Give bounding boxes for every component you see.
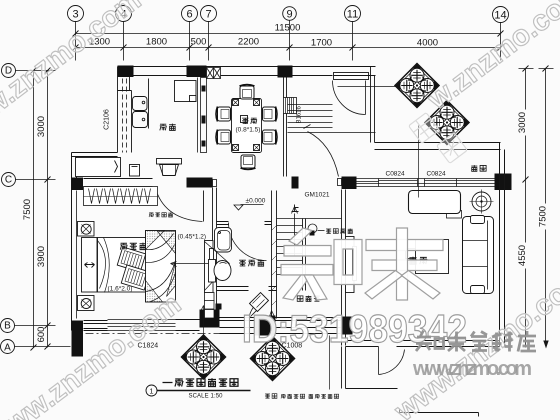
svg-text:±0.000: ±0.000: [246, 198, 266, 205]
svg-text:1800: 1800: [146, 37, 167, 48]
right dim lines: [519, 66, 554, 349]
diagonal band mid-right faint glyph boxes: [409, 113, 468, 164]
mo: left leg: [365, 271, 403, 300]
dining table: [232, 99, 262, 153]
wardrobe strip with hangers: [84, 187, 158, 206]
diag bench: [250, 293, 269, 312]
title: [146, 378, 251, 399]
hall stove: [157, 159, 182, 176]
bottom-right wall: [346, 341, 500, 347]
entry shoe cabinet: [334, 73, 369, 80]
door stopper fixture: [308, 224, 325, 236]
mo: bar1: [366, 240, 443, 251]
storage east wall: [342, 190, 346, 346]
svg-text:www.znzmo.com: www.znzmo.com: [412, 358, 532, 380]
big zhi-mo watermark drawn: [281, 228, 443, 300]
window labels bottom: [138, 343, 303, 350]
dining-entry divider wall: [284, 78, 287, 177]
svg-text:C2106: C2106: [104, 109, 111, 130]
dining chairs: [240, 85, 255, 100]
bath east wall: [272, 191, 277, 319]
kitchen west window C2106: [118, 67, 130, 153]
laundry door: [250, 300, 267, 317]
outdoor steps: [400, 409, 479, 417]
bed headboard: [82, 238, 98, 293]
flower bed north wall: [375, 143, 501, 150]
bedroom labels: [120, 243, 146, 250]
east exterior wall: [500, 143, 505, 346]
svg-text:C0824: C0824: [427, 171, 447, 178]
entry door: [333, 81, 366, 115]
column G9: [278, 66, 293, 78]
column G6-7: [187, 66, 207, 78]
svg-text:600: 600: [36, 327, 47, 343]
svg-text:4000: 4000: [417, 38, 438, 49]
bedroom north wall: [84, 179, 153, 187]
window wall C0824: [357, 179, 495, 187]
toilet: [209, 260, 232, 283]
kitchen label: [160, 124, 176, 131]
storage label: [297, 296, 320, 302]
eave dash line: [86, 333, 251, 335]
column flower bed east: [495, 174, 512, 191]
mo: vertical: [397, 228, 408, 300]
column C-line west: [72, 178, 84, 191]
mo: [447, 332, 466, 352]
leader lines bottom: [201, 306, 330, 390]
svg-text:3: 3: [72, 9, 78, 21]
svg-text:7: 7: [205, 9, 211, 21]
entry east wall: [371, 67, 375, 143]
bath north wall + door: [217, 222, 272, 225]
medallion 4: [251, 337, 295, 381]
side table: [447, 211, 462, 219]
columns bottom: [72, 321, 84, 357]
rear door: [379, 347, 405, 375]
svg-text:14: 14: [494, 10, 506, 22]
bedroom door: [153, 191, 204, 222]
porch walls: [342, 347, 398, 389]
west exterior wall: [72, 153, 77, 331]
hall cabinet: [76, 158, 121, 177]
bottom tiny label: [265, 394, 339, 399]
svg-text:B1616: B1616: [297, 105, 303, 123]
top exterior wall: [118, 67, 376, 76]
svg-text:11500: 11500: [275, 23, 301, 34]
zhi: [416, 331, 444, 352]
svg-text:(0.45*1.2): (0.45*1.2): [178, 234, 207, 241]
stair up arrow: [292, 207, 298, 256]
tv label + arrow: [171, 242, 230, 291]
living label: [409, 257, 427, 264]
medallion 3: [182, 335, 226, 379]
svg-text:A: A: [4, 343, 11, 354]
storage north line: [277, 218, 342, 220]
svg-text:6: 6: [186, 9, 192, 21]
svg-text:9: 9: [286, 9, 292, 21]
mo: right leg: [402, 271, 441, 300]
bath west wall: [213, 188, 217, 319]
bed nightstand 2: [78, 296, 95, 311]
garden bench: [409, 191, 461, 214]
coffee table: [406, 240, 449, 274]
medallion leader 1: [338, 86, 396, 88]
tv cabinet bedroom: [205, 241, 214, 293]
fridge: [175, 81, 197, 102]
dining labels: [236, 127, 261, 134]
medallion 1: [395, 64, 439, 108]
ku: [518, 331, 536, 352]
svg-text:4550: 4550: [517, 245, 528, 266]
bathroom door arc: [229, 223, 267, 261]
zi: [471, 332, 487, 351]
entry steps upper: [288, 105, 376, 133]
zhi: right leg: [304, 275, 327, 300]
svg-text:11: 11: [347, 9, 358, 21]
level mark living: [234, 205, 264, 211]
laundry boxes: [205, 293, 222, 319]
wardrobe label: [149, 212, 173, 217]
vent window x-box: [207, 68, 221, 79]
svg-text:2200: 2200: [238, 37, 259, 48]
corridor door GM1021: [304, 125, 339, 177]
svg-text:ID:531989342: ID:531989342: [242, 308, 467, 351]
column G3: [118, 66, 134, 78]
grid bubbles top: [68, 6, 509, 23]
bath sink: [215, 228, 232, 253]
stair treads lower: [277, 219, 306, 291]
bed nightstand 1: [78, 222, 95, 237]
svg-text:7500: 7500: [22, 199, 33, 220]
flower bed label: [471, 165, 486, 171]
top dimension line segments: [73, 45, 504, 51]
tv cabinet living: [346, 237, 357, 293]
kitchen sliding door panel: [130, 165, 140, 177]
svg-text:1: 1: [149, 387, 153, 396]
fixture label: [326, 228, 353, 233]
medallion leader 2: [418, 126, 420, 198]
kitchen south wall: [72, 153, 118, 157]
svg-text:SCALE 1:50: SCALE 1:50: [189, 394, 224, 400]
hatched wall piece: [284, 98, 297, 114]
zhi: mouth box: [334, 240, 362, 285]
liao: [492, 332, 513, 352]
svg-text:C0824: C0824: [386, 171, 406, 178]
svg-text:B: B: [4, 321, 11, 332]
svg-text:(1.6*2.0): (1.6*2.0): [108, 286, 133, 293]
bath label: [239, 260, 264, 267]
zhi: bar1: [284, 246, 331, 257]
svg-text:7500: 7500: [538, 206, 549, 227]
zhi: top slant: [289, 228, 312, 245]
svg-text:(0.8*1.5): (0.8*1.5): [236, 127, 261, 134]
zhi: left leg: [283, 275, 311, 300]
armoire: [146, 231, 176, 303]
bath south wall: [217, 287, 277, 291]
flue duct: [198, 78, 207, 153]
left bubble leaders: [15, 71, 71, 347]
bed: [98, 238, 163, 293]
column at corridor: [342, 177, 357, 190]
zhi: bar2: [281, 265, 333, 276]
left dim lines: [31, 68, 51, 351]
svg-text:C: C: [5, 175, 12, 186]
mo: bar2: [372, 260, 437, 271]
svg-text:3000: 3000: [517, 112, 528, 133]
living sofa: [463, 216, 494, 294]
svg-text:500: 500: [191, 37, 207, 48]
medallion 2: [425, 101, 469, 145]
svg-text:3000: 3000: [36, 116, 47, 137]
bottom wall west part: [84, 318, 341, 334]
grid bubbles left: [1, 64, 16, 354]
grid stems: [76, 21, 501, 61]
top dimension line total 11500: [73, 31, 504, 37]
svg-text:3900: 3900: [36, 246, 47, 267]
round stool: [470, 190, 494, 214]
zhimo library drawn: [416, 331, 536, 352]
svg-text:1700: 1700: [311, 38, 332, 49]
black wall seg kitchen/hall: [187, 178, 213, 188]
svg-text:GM1021: GM1021: [305, 192, 330, 199]
kitchen counter + sink: [118, 79, 149, 153]
